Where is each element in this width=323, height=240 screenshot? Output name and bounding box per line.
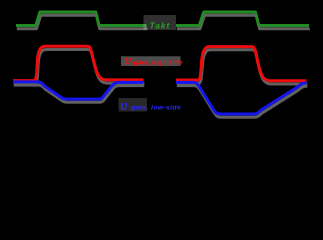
- label box green: [144, 15, 177, 30]
- svg-text:U: U: [125, 57, 132, 67]
- label box blue: [119, 98, 148, 112]
- svg-text:-gate, high-side: -gate, high-side: [132, 60, 183, 67]
- svg-text:-gate, low-side: -gate, low-side: [129, 104, 181, 111]
- label box red: [121, 56, 181, 66]
- trace: high-side gate (red positive pulses): [13, 46, 307, 81]
- wire shadows (gray drop shadows of all traces): [14, 15, 310, 117]
- svg-text:Takt: Takt: [150, 21, 171, 31]
- svg-text:U: U: [121, 102, 128, 112]
- trace: low-side gate (blue negative pulses): [13, 82, 307, 114]
- trace: clock input (green square wave): [16, 12, 309, 26]
